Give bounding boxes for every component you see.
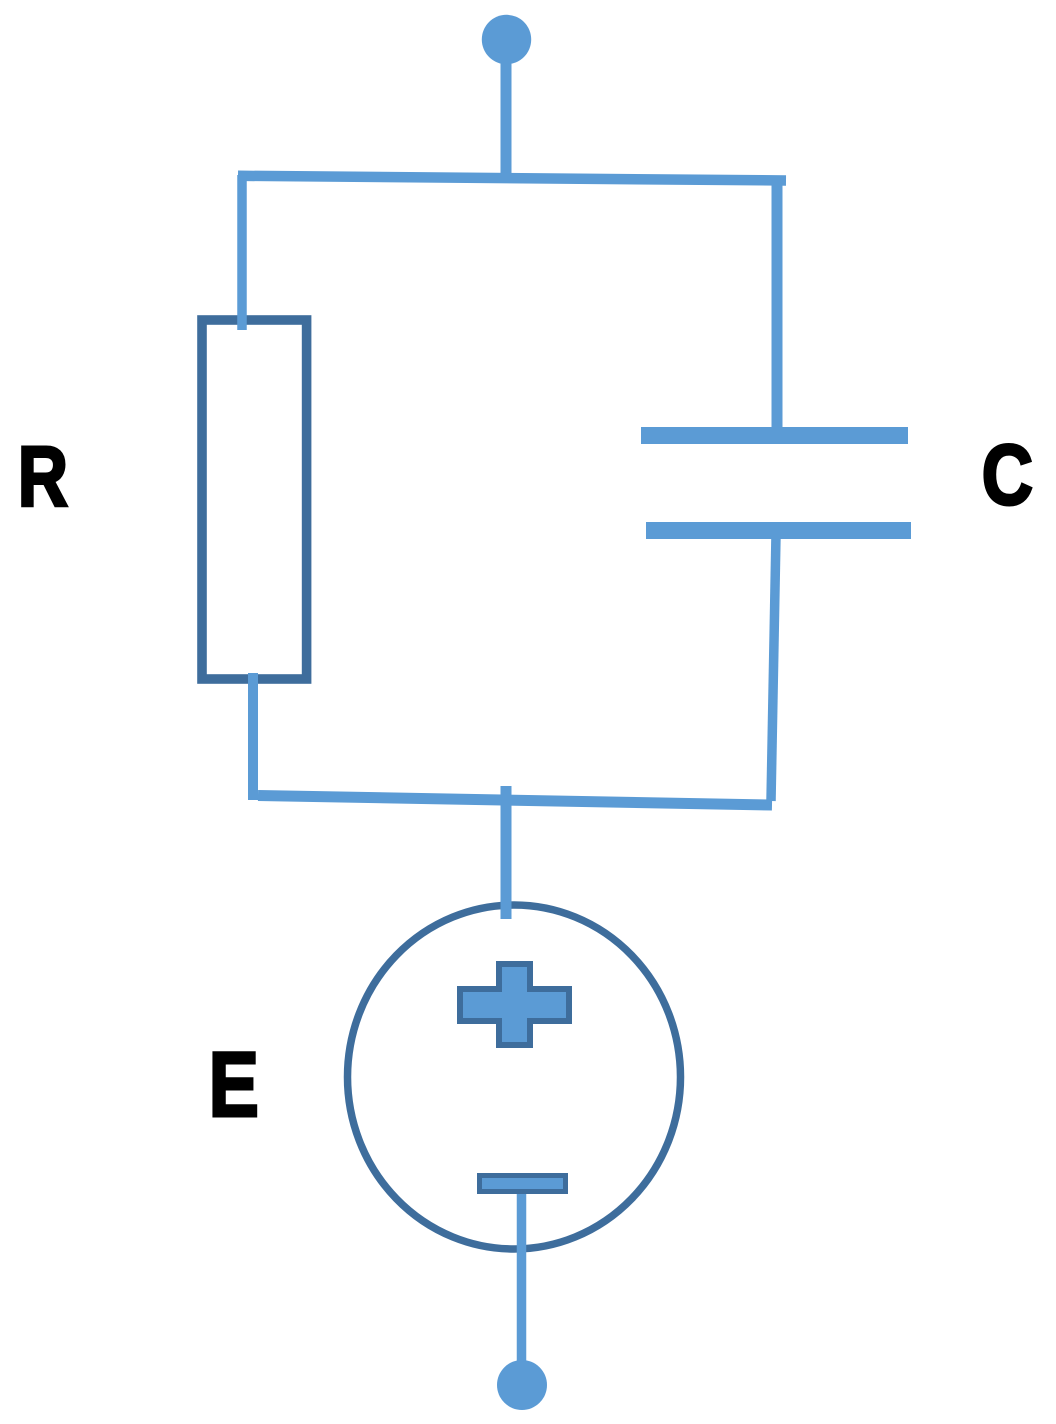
source plus symbol — [460, 964, 569, 1045]
wire source to bottom bus — [501, 786, 512, 919]
svg-text:R: R — [18, 428, 68, 524]
voltage source E circle — [348, 905, 681, 1249]
wire bottom horizontal bus — [258, 796, 772, 806]
wire capacitor bottom stub — [771, 535, 776, 801]
wire top terminal to top bus — [501, 62, 512, 180]
svg-text:C: C — [982, 427, 1033, 523]
wire top horizontal bus — [238, 176, 786, 181]
wire resistor bottom stub — [248, 673, 258, 800]
label R — [18, 428, 68, 524]
bottom terminal node — [497, 1360, 547, 1410]
top terminal node — [482, 15, 531, 64]
capacitor C bottom plate — [646, 522, 911, 539]
svg-text:E: E — [209, 1033, 259, 1136]
capacitor C top plate — [641, 427, 908, 444]
source minus symbol — [480, 1176, 566, 1192]
wire left vertical to resistor — [237, 175, 247, 330]
wire capacitor top stub — [772, 176, 783, 430]
label C — [982, 427, 1033, 523]
label E — [209, 1033, 259, 1136]
wire source minus to bottom terminal — [517, 1190, 527, 1362]
resistor R body — [202, 320, 307, 679]
